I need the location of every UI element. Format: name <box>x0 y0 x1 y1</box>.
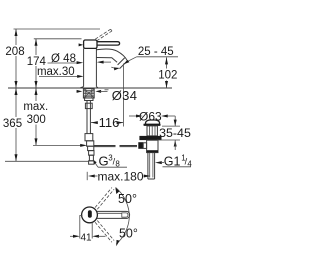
arrow down 208 at counter <box>15 81 18 88</box>
extension line top of raised lever (208 ref) <box>14 28 101 30</box>
svg-text:Ø34: Ø34 <box>112 88 137 103</box>
arrow down 365 bottom <box>15 154 18 161</box>
fitting block mid <box>85 134 93 141</box>
svg-text:300: 300 <box>27 114 46 126</box>
small arrow at cartridge block left <box>79 43 84 46</box>
swing arc upper with arrow <box>116 187 130 215</box>
right side arrow of Ø48 pair <box>97 61 104 64</box>
body cylinder <box>83 48 85 86</box>
dimension max.180 <box>86 172 88 180</box>
counter / mounting surface line <box>8 87 172 89</box>
svg-text:max.: max. <box>23 101 48 113</box>
cartridge slot <box>88 210 92 218</box>
waste drain: plug dome <box>146 120 160 124</box>
opposite arrow under outlet <box>111 67 115 68</box>
svg-text:35-45: 35-45 <box>159 126 191 140</box>
lever bar top view <box>97 211 130 218</box>
waste lock nut dark <box>139 136 161 140</box>
25-45 leader arrow to outlet face <box>127 57 137 62</box>
hose fitting small block <box>85 103 92 108</box>
max300 bottom reference line with arrow to hose <box>33 144 82 146</box>
waste body hatched <box>147 126 157 136</box>
lower hose connectors <box>87 141 94 146</box>
threaded shank with nut <box>83 89 94 98</box>
aerator joint line <box>118 58 125 65</box>
label G1 1/4 with leader <box>155 161 162 164</box>
dimension 102 vertical <box>166 57 168 68</box>
arrow up below counter on 365 line <box>15 88 18 95</box>
pop-up waste pull rod <box>94 145 116 147</box>
dashed lever rotated down 50° <box>95 222 112 242</box>
side outlet box <box>138 142 143 149</box>
Ø34 arrows at shank <box>77 90 80 92</box>
rod continues <box>86 124 88 134</box>
svg-text:41: 41 <box>80 232 92 243</box>
svg-text:max.180: max.180 <box>97 170 143 184</box>
svg-text:50°: 50° <box>118 192 137 206</box>
svg-text:208: 208 <box>5 46 24 58</box>
svg-text:G: G <box>99 153 109 168</box>
swing arc lower with arrow <box>116 216 129 245</box>
dimension line 208/365 vertical <box>15 29 17 45</box>
waste flange Ø63 <box>144 124 161 126</box>
supply rod below shank <box>85 98 93 101</box>
svg-text:Ø63: Ø63 <box>139 109 162 123</box>
dimension Ø63 <box>129 115 137 117</box>
spout outlet extension line down to 116 <box>122 64 124 117</box>
arrow up 208 top <box>15 29 18 36</box>
arrow up 174 top <box>35 39 38 46</box>
dimension 41 <box>80 216 83 239</box>
extension line 174 (top of body) <box>34 38 82 40</box>
tailpipe <box>147 153 149 179</box>
arrow down 174 at counter <box>35 81 38 88</box>
coupling dark bar <box>147 150 158 152</box>
365 bottom reference line <box>5 160 89 162</box>
dimension 35-45 <box>174 116 176 126</box>
handle body circle <box>82 207 98 223</box>
raised lever (dashed alternate position) <box>95 29 110 39</box>
dashed lever rotated up 50° <box>95 188 112 208</box>
lever horizontal <box>97 42 120 45</box>
arrow up max300 below counter <box>35 88 38 95</box>
svg-text:365: 365 <box>3 118 22 130</box>
spout <box>96 49 127 61</box>
spout end face <box>120 61 128 69</box>
svg-text:102: 102 <box>158 70 177 82</box>
dimension 116 <box>91 122 98 124</box>
base flange <box>80 87 98 88</box>
waste body lower <box>147 140 158 152</box>
cartridge block <box>84 40 97 48</box>
dimension line 174/max300 vertical <box>35 39 37 55</box>
arrow down max300 bottom <box>35 138 38 145</box>
svg-text:116: 116 <box>99 115 120 130</box>
svg-text:50°: 50° <box>119 226 138 240</box>
